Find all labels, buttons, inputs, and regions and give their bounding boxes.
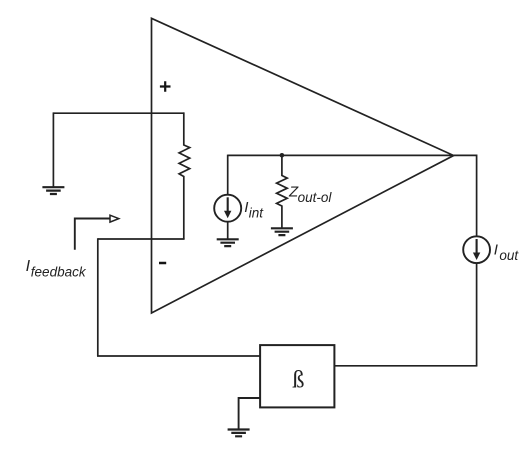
svg-text:int: int (249, 206, 265, 221)
wire noninverting input horizontal (53, 112, 183, 114)
ground G3 (271, 228, 293, 235)
wire feedback vertical (97, 238, 99, 356)
wire beta block ground stub (239, 398, 261, 429)
resistor Z_out-ol (277, 155, 288, 229)
op-amp U1 noninverting input label + (160, 81, 171, 92)
label I_out (494, 242, 520, 263)
resistor R1 (179, 112, 190, 239)
svg-text:ß: ß (292, 366, 304, 393)
wire output horizontal to beta block (334, 365, 477, 367)
current source I_out (463, 236, 490, 263)
label beta (292, 366, 304, 393)
svg-text:I: I (494, 242, 498, 259)
node junction dot (280, 153, 285, 158)
label Z_out-ol (288, 184, 332, 206)
wire inverting input horizontal (98, 238, 185, 240)
svg-text:feedback: feedback (31, 265, 87, 280)
label I_feedback (26, 258, 87, 280)
op-amp U1 (152, 18, 454, 313)
wire output vertical down (476, 263, 478, 366)
current source I_int (214, 155, 241, 240)
ground G4 (228, 430, 250, 437)
arrow I_feedback direction (75, 215, 119, 250)
ground G1 (42, 187, 64, 194)
wire feedback horizontal to beta block (97, 355, 260, 357)
block B feedback network (260, 345, 334, 407)
wire to ground left vertical (52, 112, 54, 187)
svg-text:out-ol: out-ol (298, 190, 333, 205)
ground G2 (217, 239, 239, 246)
op-amp U1 inverting input label - (159, 262, 166, 265)
svg-text:out: out (499, 248, 519, 263)
wire output from op-amp tip (454, 155, 477, 236)
wire internal node horizontal (228, 154, 454, 156)
label I_int (244, 199, 264, 220)
